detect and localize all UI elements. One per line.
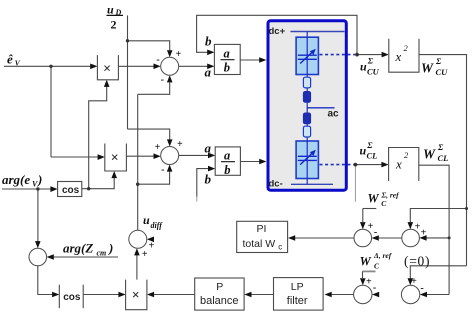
svg-text:CU: CU (436, 67, 449, 77)
converter MMC box (268, 21, 355, 191)
svg-text:cos: cos (63, 292, 81, 303)
arrow into cos1 (50, 186, 57, 192)
svg-text:x: x (395, 157, 402, 172)
svg-text:×: × (111, 150, 119, 165)
summing junction L2 (354, 285, 372, 303)
svg-text:): ) (37, 172, 42, 187)
arm wire vertical (306, 32, 308, 185)
wire ucu to x2 (357, 54, 382, 56)
summing junction udiff (129, 230, 147, 248)
arrow into P balance (244, 292, 251, 298)
dc+ bus (291, 31, 345, 33)
arrow into L1 top (360, 222, 366, 229)
summing junction L1 (354, 229, 372, 247)
node dot WCU row1 (465, 207, 468, 210)
svg-text:CL: CL (438, 153, 449, 163)
arrow into J2 left (154, 153, 161, 159)
block LP filter (274, 278, 324, 311)
svg-text:2: 2 (111, 18, 117, 32)
capacitor lower plates (298, 155, 317, 157)
svg-text:u: u (360, 60, 367, 74)
svg-text:Σ: Σ (366, 140, 373, 150)
arrow into divider2 a (208, 153, 215, 159)
arrow into divider1 a (207, 64, 214, 70)
svg-text:balance: balance (200, 295, 239, 307)
node dot argev (36, 187, 39, 190)
wire J1 out to divider1 a (179, 65, 208, 67)
svg-text:dc+: dc+ (269, 26, 286, 37)
multiplier mult2 open-top box (105, 144, 127, 172)
svg-text:+: + (411, 276, 417, 287)
wire uD branch to J1 top (128, 41, 170, 51)
wire divider2 out to converter (240, 161, 260, 163)
arrow into mult2 bottom (111, 171, 117, 178)
svg-text:b: b (205, 172, 212, 187)
cell lower (296, 141, 318, 179)
svg-text:PI: PI (257, 223, 267, 235)
wire ucl to x2b (355, 164, 382, 166)
arrow into mult1 bottom (104, 80, 110, 87)
svg-text:+: + (176, 49, 182, 60)
dc- bus (291, 183, 333, 185)
cell upper (296, 37, 318, 74)
summing junction J1 (161, 57, 179, 75)
svg-text:×: × (132, 287, 140, 302)
svg-text:-: - (156, 55, 159, 66)
svg-text:W: W (423, 147, 436, 162)
wire b feedback loop top (197, 15, 357, 54)
dashed measurement lower (320, 164, 354, 166)
svg-text:x: x (395, 49, 402, 64)
node dot WCL row1 (448, 236, 451, 239)
svg-text:LP: LP (291, 281, 304, 293)
svg-text:ac: ac (328, 109, 340, 120)
summing junction R2 (401, 285, 419, 303)
svg-text:filter: filter (287, 295, 308, 307)
dashed measurement upper (320, 54, 356, 56)
wire W_CU branch row1 (410, 209, 466, 223)
arrow into mult1 (90, 64, 97, 70)
wire W_CL branch row1 right (426, 237, 449, 239)
wire udiff to J1 bottom (138, 82, 170, 94)
svg-text:diff: diff (151, 221, 164, 230)
block P balance (195, 278, 244, 310)
multiplier mult1 open-top box (97, 55, 118, 80)
wire WCdref tail (363, 270, 376, 272)
svg-text:CU: CU (367, 67, 380, 77)
svg-text:-: - (161, 75, 164, 86)
arrow into udiff right dangling (147, 237, 154, 243)
svg-text:+: + (421, 227, 427, 238)
svg-text:a: a (224, 149, 230, 163)
svg-text:u: u (107, 3, 114, 17)
svg-text:+: + (177, 139, 183, 150)
submodule 2 (303, 92, 310, 103)
submodule 3 (303, 113, 310, 124)
svg-text:u: u (360, 144, 367, 158)
arrow into mult3 right (147, 292, 154, 298)
block x2a open-top (389, 39, 419, 72)
wire W_CL to R2 right (426, 294, 449, 296)
wire uD vertical (127, 15, 129, 129)
svg-text:Δ, ref: Δ, ref (373, 251, 393, 260)
node dot uCL (354, 163, 358, 167)
wire ev to mult2 (51, 156, 98, 158)
block x2b open-bottom (389, 148, 419, 182)
svg-text:b: b (205, 34, 212, 49)
capacitor lower arrow (300, 152, 313, 165)
submodule 1 (303, 77, 310, 88)
wire udiff branch to J2 bottom (138, 171, 170, 184)
wire uD branch to J2 top (128, 129, 170, 140)
wire mult1 out to J1 (118, 65, 154, 67)
wire LP to P balance (251, 294, 273, 296)
svg-text:-: - (374, 227, 377, 238)
node ev branch dot (50, 66, 52, 157)
submodule 4 (303, 126, 310, 137)
arrow into PI (288, 235, 295, 241)
wire L1 to PI (295, 237, 354, 239)
svg-text:a: a (205, 65, 212, 80)
svg-text:ê: ê (7, 52, 13, 67)
arrow into mult2 (98, 154, 105, 160)
node dot uCU (355, 53, 359, 57)
capacitor upper arrow (300, 51, 313, 64)
summing junction J2 (161, 147, 179, 165)
svg-text:+: + (155, 142, 161, 153)
svg-text:arg(Z: arg(Z (63, 241, 93, 256)
summing junction R1 (402, 229, 420, 247)
wire ev input (4, 65, 91, 67)
arrow into arg circle top (35, 241, 41, 248)
svg-text:P: P (216, 281, 223, 293)
wire faint stub b2 (196, 196, 198, 202)
multiplier mult3 open-top box (126, 280, 147, 310)
arrow into x2a (382, 52, 389, 58)
wire mult3 up to udiff (136, 255, 138, 280)
block cos1 (58, 182, 82, 197)
arrow into J1 bottom (167, 75, 173, 82)
wire x2a out W_CU (419, 55, 467, 266)
divider block2 a/b (215, 147, 240, 175)
svg-text:+: + (366, 277, 372, 288)
wire argev branch down to arg circle (37, 189, 39, 242)
svg-text:b: b (224, 61, 230, 75)
wire arg ev input (2, 188, 51, 190)
svg-text:c: c (278, 243, 282, 252)
wire L2 to LP filter (332, 294, 354, 296)
divider block1 a/b (214, 44, 240, 74)
wire cos1 branch to mult1 (89, 86, 107, 188)
svg-text:W: W (360, 255, 372, 269)
svg-text:cos: cos (62, 185, 80, 196)
arrow into arg circle right (47, 254, 54, 260)
svg-text:a: a (205, 141, 212, 156)
wire divider2 b stub (197, 169, 209, 197)
arrow into R1 top (408, 222, 414, 229)
svg-text:+: + (149, 241, 155, 252)
arrow into mult3 left (118, 292, 125, 298)
wire x2b out W_CL (419, 165, 449, 294)
svg-text:dc-: dc- (269, 179, 283, 190)
node dot uD (126, 39, 129, 42)
wire W_CU to row2 (410, 266, 466, 279)
block PI total Wc (237, 221, 288, 252)
svg-text:-: - (373, 283, 376, 294)
arrow into L2 top (360, 278, 366, 285)
arrow into divider2 b (208, 166, 215, 172)
wire divider1 out to converter (240, 59, 260, 61)
arrow into J1 left (154, 64, 161, 70)
arrow into J1 top (167, 50, 173, 57)
node dot ev (49, 65, 52, 68)
block cos2 abs bars (58, 285, 60, 309)
svg-text:b: b (224, 163, 230, 177)
arrow into converter lower (259, 159, 266, 165)
svg-text:arg(e: arg(e (2, 172, 30, 187)
arrow into LP filter (325, 292, 332, 298)
svg-text:total W: total W (243, 238, 276, 250)
arrow into x2b (381, 162, 388, 168)
arrow into L2 right dangling (372, 292, 379, 298)
plus minus signs (142, 49, 427, 294)
svg-text:CL: CL (367, 151, 378, 161)
svg-text:W: W (368, 192, 380, 206)
svg-text:Σ: Σ (437, 142, 444, 152)
svg-text:(=0): (=0) (404, 254, 430, 269)
node dot cos1 (87, 187, 90, 190)
arrow into udiff bottom (134, 248, 140, 255)
node dot udiff (136, 183, 139, 186)
ac tap (307, 107, 334, 109)
svg-text:W: W (421, 61, 434, 76)
wire WCref tail (363, 208, 377, 210)
svg-text:+: + (142, 249, 148, 260)
arrow into J2 top (167, 139, 173, 146)
arrow into L1 right (372, 235, 379, 241)
svg-text:-: - (420, 283, 423, 294)
wire udiff up (137, 94, 139, 230)
svg-text:Σ: Σ (435, 56, 442, 66)
svg-text:-: - (161, 165, 164, 176)
arrow into divider1 b (207, 50, 214, 56)
wire cos1 out (82, 178, 114, 189)
wire faint stub ucl (354, 166, 356, 202)
wire P balance to mult3 (154, 294, 195, 296)
svg-text:a: a (224, 47, 230, 61)
arrow into J2 bottom (167, 165, 173, 172)
svg-text:cm: cm (97, 249, 107, 258)
svg-text:×: × (103, 61, 111, 76)
wire R1 to L1 (378, 237, 402, 239)
svg-text:Σ: Σ (367, 56, 374, 66)
wire argZ input (53, 256, 118, 258)
capacitor upper plates (298, 54, 317, 56)
arrow into converter upper (259, 57, 266, 63)
arrow into R2 top (408, 278, 414, 285)
wire arg circle down to cos2 (38, 266, 53, 295)
arrow into R2 right (420, 292, 427, 298)
svg-text:u: u (143, 213, 150, 227)
arrow into R1 right (419, 235, 426, 241)
wire J2 out to divider2 a (179, 154, 209, 156)
wire cos2 to mult3 (83, 294, 119, 296)
summing junction arg (29, 248, 47, 266)
svg-text:+: + (368, 221, 374, 232)
svg-text:): ) (108, 241, 113, 256)
arrow into cos2 (52, 292, 59, 298)
wire mult2 out to J2 (126, 155, 154, 157)
